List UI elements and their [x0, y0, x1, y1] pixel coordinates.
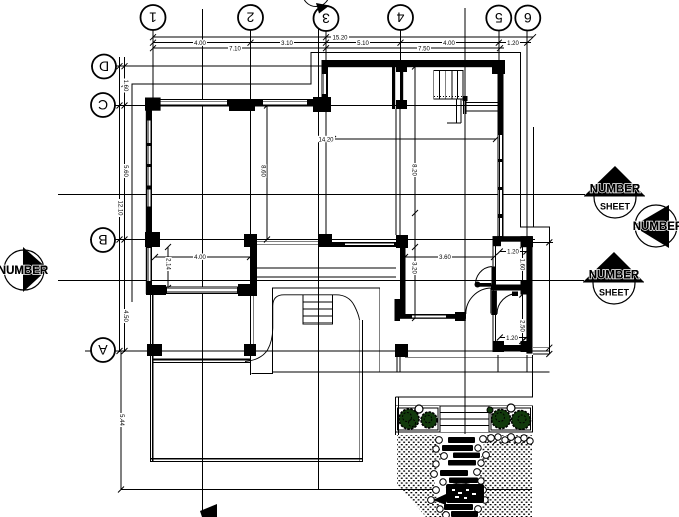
svg-text:NUMBER: NUMBER: [633, 221, 679, 233]
svg-text:2.50: 2.50: [518, 320, 524, 332]
svg-text:5.44: 5.44: [118, 414, 124, 426]
svg-text:3: 3: [322, 11, 330, 27]
svg-text:5.60: 5.60: [122, 165, 128, 177]
svg-text:5: 5: [495, 10, 503, 26]
svg-text:4: 4: [396, 10, 404, 26]
svg-text:8.60: 8.60: [260, 165, 266, 177]
svg-text:SHEET: SHEET: [599, 288, 630, 298]
svg-text:C: C: [98, 97, 108, 113]
svg-text:12.10: 12.10: [117, 200, 123, 216]
svg-text:6: 6: [524, 10, 532, 26]
svg-text:4.50: 4.50: [122, 310, 128, 322]
svg-text:1: 1: [149, 10, 157, 26]
svg-text:15.20: 15.20: [332, 36, 348, 42]
svg-text:1.20: 1.20: [507, 250, 519, 256]
svg-text:NUMBER: NUMBER: [589, 270, 640, 282]
svg-text:7.50: 7.50: [418, 47, 430, 53]
svg-text:4.00: 4.00: [194, 255, 206, 261]
svg-text:1.20: 1.20: [507, 41, 519, 47]
svg-text:D: D: [99, 59, 109, 75]
svg-text:NUMBER: NUMBER: [0, 265, 49, 277]
svg-text:5.10: 5.10: [357, 41, 369, 47]
svg-text:3.60: 3.60: [439, 255, 451, 261]
svg-text:4.00: 4.00: [443, 41, 455, 47]
svg-text:1.20: 1.20: [506, 336, 518, 342]
svg-text:NUMBER: NUMBER: [590, 184, 641, 196]
svg-text:A: A: [98, 342, 108, 358]
svg-text:2.14: 2.14: [165, 258, 171, 270]
svg-text:3.20: 3.20: [411, 262, 417, 274]
svg-text:3.10: 3.10: [281, 41, 293, 47]
svg-text:SHEET: SHEET: [600, 202, 631, 212]
svg-text:8.20: 8.20: [411, 164, 417, 176]
svg-text:14.20: 14.20: [318, 138, 334, 144]
svg-text:1.60: 1.60: [122, 80, 128, 92]
svg-text:7.10: 7.10: [229, 47, 241, 53]
svg-text:2: 2: [246, 10, 254, 26]
svg-text:4.00: 4.00: [194, 41, 206, 47]
svg-text:1.60: 1.60: [518, 259, 524, 271]
svg-text:B: B: [98, 232, 107, 248]
